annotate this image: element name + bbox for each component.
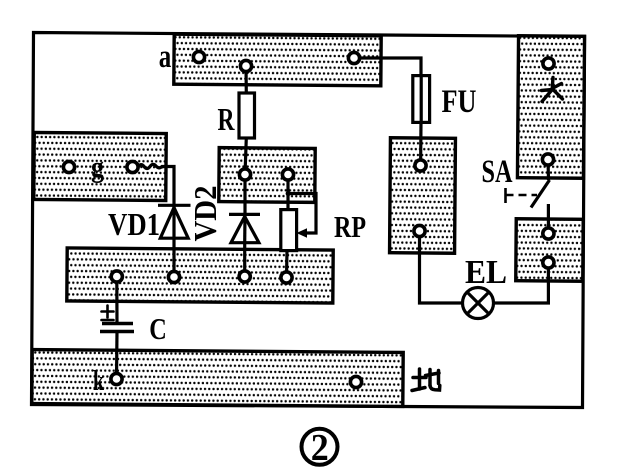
svg-text:EL: EL [465, 254, 507, 291]
wire lamp to lower-right strip [494, 263, 549, 304]
wire live strip to switch [546, 160, 550, 181]
board outline [32, 33, 585, 408]
wire RP wiper loop [288, 194, 316, 234]
resistor R [239, 93, 255, 138]
svg-text:RP: RP [334, 209, 366, 244]
wire RP to center strip [285, 251, 289, 278]
terminal a [193, 51, 204, 62]
junction RP wiper branch [286, 191, 291, 196]
wire switch to lower-right strip [547, 204, 550, 234]
svg-text:R: R [218, 101, 236, 137]
earth CJK label [412, 369, 440, 391]
wire R to mid strip [245, 138, 246, 175]
svg-text:a: a [159, 39, 172, 75]
svg-text:g: g [91, 151, 104, 184]
svg-text:SA: SA [482, 154, 513, 190]
bus strip live (fire) [517, 36, 584, 179]
wire C to earth strip [115, 332, 119, 380]
terminal mid-left [239, 169, 250, 180]
bus strip top (node a strip) [174, 34, 381, 86]
wire g-strip to VD1 [138, 164, 174, 205]
terminal lr-bottom [543, 257, 554, 268]
terminal k [111, 373, 122, 384]
terminal earth-right [350, 376, 361, 387]
terminal mr-bottom [414, 225, 425, 236]
terminal g-right [127, 161, 138, 172]
svg-text:FU: FU [442, 84, 477, 120]
terminal top-right [348, 52, 359, 63]
terminal lr-top [543, 228, 554, 239]
bus strip lower-right (SA/EL strip) [516, 219, 583, 282]
fuse FU [413, 76, 430, 123]
lamp EL [463, 288, 494, 319]
switch SA actuator dashes [506, 188, 538, 203]
svg-text:2: 2 [311, 427, 329, 469]
terminal cb2 [168, 271, 179, 282]
terminal top-mid [240, 60, 251, 71]
bus strip mid (VD2/RP strip) [219, 148, 315, 203]
terminal cb1 [111, 271, 122, 282]
wire mid-right strip to lamp [420, 231, 463, 303]
svg-text:VD2: VD2 [187, 186, 223, 242]
potentiometer RP [281, 210, 307, 251]
terminal g-left [63, 161, 74, 172]
wire center strip to C [115, 277, 118, 324]
wire VD2 to center strip [243, 243, 246, 277]
wire FU to mid-right strip [419, 122, 423, 165]
wire a-strip to R [244, 66, 248, 93]
bus strip center-bottom [67, 248, 333, 303]
figure number 2 [302, 427, 338, 469]
C polarity plus [102, 306, 114, 321]
wire a-strip to FU [354, 58, 421, 76]
capacitor C [100, 324, 134, 332]
bus strip mid-right (FU/EL strip) [390, 138, 456, 254]
terminal mr-top [415, 160, 426, 171]
diode VD1 [158, 205, 191, 238]
bus strip left (node g strip) [34, 132, 167, 200]
live (fire) CJK label [542, 78, 563, 102]
wire mid strip to RP [286, 175, 289, 210]
terminal live-bottom [542, 154, 553, 165]
svg-text:VD1: VD1 [108, 206, 160, 242]
bus strip earth [32, 350, 403, 407]
terminal cb4 [281, 272, 292, 283]
terminal cb3 [239, 271, 250, 282]
svg-text:C: C [149, 311, 167, 346]
diode VD2 [229, 214, 260, 242]
wire mid strip to VD2 [243, 175, 246, 215]
terminal mid-right [282, 169, 293, 180]
wire VD1 to center strip [172, 238, 175, 277]
terminal live-top [543, 58, 554, 69]
switch SA blade [531, 180, 550, 208]
svg-text:k: k [93, 365, 105, 397]
